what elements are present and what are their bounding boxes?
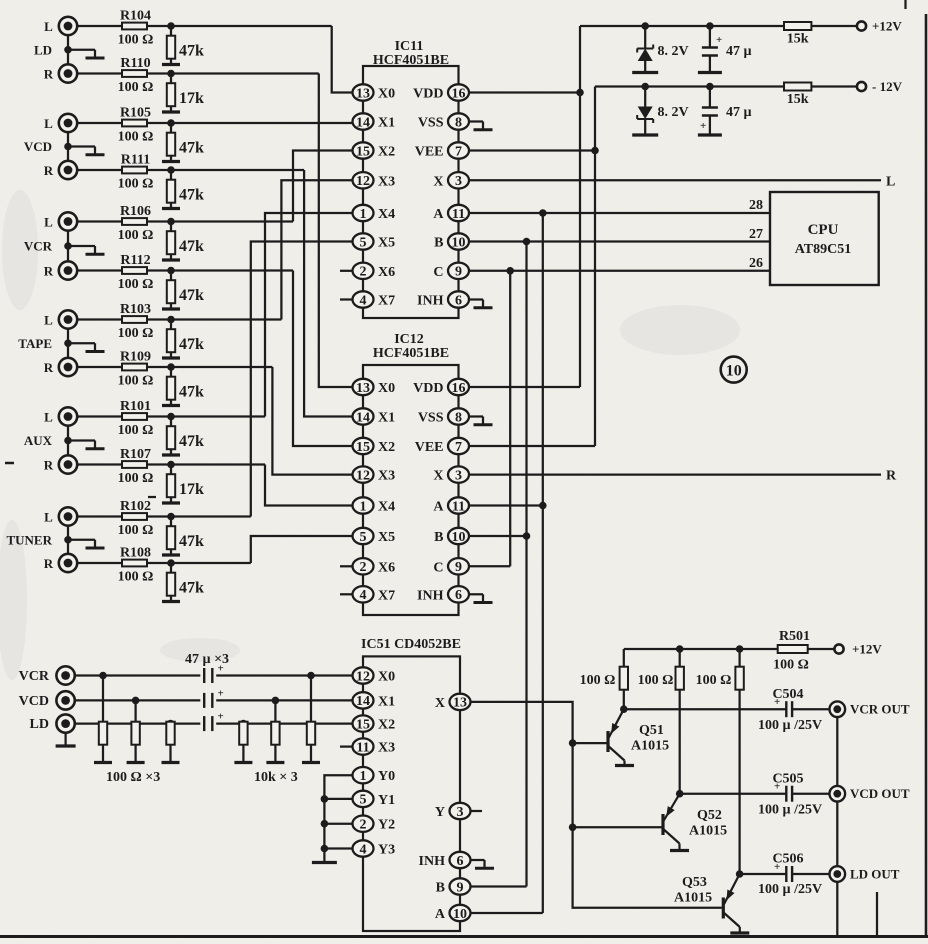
svg-text:8. 2V: 8. 2V — [658, 44, 689, 59]
resistor R103 — [118, 302, 154, 341]
input jack R — [44, 261, 77, 279]
svg-text:L: L — [44, 510, 53, 525]
input jack L — [44, 212, 77, 230]
svg-text:X1: X1 — [378, 411, 395, 426]
resistor 47k shunt — [167, 417, 175, 454]
svg-text:10: 10 — [453, 907, 467, 922]
pin IC12 10 B — [434, 528, 469, 545]
svg-text:1: 1 — [360, 769, 367, 784]
svg-text:100 Ω: 100 Ω — [118, 277, 154, 292]
wire jack to R103 — [77, 318, 281, 320]
label 47k — [179, 287, 204, 304]
wire TUNER L to IC11 X5 — [251, 242, 353, 517]
pin IC51 9 B — [436, 878, 471, 895]
svg-text:17k: 17k — [179, 90, 204, 107]
node VCD r — [132, 697, 140, 705]
node VCR k — [307, 672, 315, 680]
svg-text:15k: 15k — [787, 32, 809, 47]
svg-text:+: + — [218, 711, 224, 723]
resistor R101 — [118, 399, 154, 438]
svg-text:L: L — [44, 410, 53, 425]
capacitor 47u VCR — [204, 663, 224, 684]
pin IC51 13 X — [435, 694, 471, 711]
svg-text:7: 7 — [455, 144, 462, 159]
svg-text:10k × 3: 10k × 3 — [254, 770, 298, 785]
label 100ohm col 679.7 — [638, 673, 674, 688]
ground LD — [68, 50, 105, 58]
wire jack to R107 — [77, 463, 265, 465]
pin IC12 5 X5 — [353, 528, 396, 545]
ground — [162, 110, 180, 113]
resistor 10k VCR — [307, 676, 315, 762]
wire C column — [509, 271, 511, 567]
wire B col to IC51 pin9 — [471, 885, 527, 887]
resistor 10k VCD — [271, 700, 279, 761]
pin IC11 12 X3 — [353, 172, 396, 189]
label TAPE — [18, 336, 52, 351]
pin IC51 12 X0 — [353, 667, 396, 684]
wire IC11 A to CPU — [469, 212, 770, 214]
resistor 17k shunt — [167, 465, 175, 502]
svg-text:3: 3 — [457, 805, 464, 820]
pin IC12 3 X — [433, 466, 469, 483]
resistor 15k top — [784, 22, 811, 47]
svg-text:CPU: CPU — [808, 222, 839, 238]
resistor 47k shunt — [167, 222, 175, 259]
resistor R111 — [118, 153, 154, 192]
label 47u top — [726, 44, 752, 59]
capacitor 47u top — [702, 26, 722, 71]
svg-text:100 Ω: 100 Ω — [118, 326, 154, 341]
svg-text:2: 2 — [360, 265, 367, 280]
input jack VCD — [19, 691, 75, 709]
svg-text:X2: X2 — [378, 718, 395, 733]
border tick top — [904, 0, 906, 9]
wire IC11 X6 stub — [340, 270, 353, 272]
pin IC51 11 X3 — [353, 738, 396, 755]
svg-text:47 µ ×3: 47 µ ×3 — [185, 652, 229, 667]
svg-text:47 µ: 47 µ — [726, 105, 752, 120]
node zener2 tap — [641, 83, 649, 91]
node junction R101 — [167, 413, 175, 421]
node e1 — [620, 705, 628, 713]
ground cap1 — [698, 71, 722, 74]
resistor 100ohm col 739.6 — [735, 649, 743, 874]
resistor 100ohm VCR — [99, 676, 107, 762]
node cap1 tap — [706, 22, 714, 30]
wire +12V out rail — [624, 648, 778, 650]
wire VCD R to IC12 X1 — [304, 170, 352, 417]
svg-text:4: 4 — [360, 842, 367, 857]
svg-text:1: 1 — [360, 499, 367, 514]
label 17k — [179, 90, 204, 107]
svg-text:14: 14 — [356, 694, 370, 709]
ground — [162, 356, 180, 359]
label 47k — [179, 533, 204, 550]
pin IC12 2 X6 — [353, 558, 396, 575]
svg-text:R107: R107 — [120, 447, 151, 462]
svg-text:A: A — [433, 500, 444, 515]
wire IC12 X7 stub — [340, 593, 353, 595]
svg-text:13: 13 — [356, 381, 370, 396]
op-amp IC51 box — [363, 656, 460, 931]
label 10k x3 — [254, 770, 298, 785]
wire jack to R106 — [77, 220, 293, 222]
node VCD k — [272, 697, 280, 705]
svg-text:A: A — [435, 907, 446, 922]
svg-text:TUNER: TUNER — [6, 532, 52, 547]
svg-text:R103: R103 — [120, 302, 151, 317]
pin IC51 14 X1 — [353, 692, 396, 709]
svg-text:HCF4051BE: HCF4051BE — [373, 53, 449, 68]
node B2 — [523, 532, 531, 540]
svg-text:6: 6 — [457, 854, 464, 869]
svg-text:100 µ /25V: 100 µ /25V — [758, 882, 822, 897]
svg-text:Y: Y — [435, 805, 445, 820]
svg-text:R112: R112 — [120, 253, 150, 268]
input jack R — [44, 554, 77, 572]
node TUNER mid — [64, 536, 72, 544]
resistor 47k shunt — [167, 517, 175, 554]
output jack VCR OUT — [830, 701, 910, 717]
label IC12 — [373, 332, 449, 361]
svg-text:X1: X1 — [378, 116, 395, 131]
pin IC11 15 X2 — [353, 142, 396, 159]
svg-text:100 Ω: 100 Ω — [118, 80, 154, 95]
svg-text:15k: 15k — [787, 92, 809, 107]
svg-text:+: + — [774, 861, 780, 873]
pin IC12 7 VEE — [415, 438, 469, 455]
svg-text:VCD: VCD — [24, 139, 52, 154]
svg-text:+: + — [774, 696, 780, 708]
svg-text:3: 3 — [455, 174, 462, 189]
label 47k — [179, 238, 204, 255]
node junction R104 — [167, 22, 175, 30]
input jack VCR — [19, 666, 75, 684]
wire IC11 C to CPU — [469, 270, 770, 272]
pin IC11 4 X7 — [353, 291, 396, 308]
svg-text:14: 14 — [356, 115, 370, 130]
wire IC12 B stub — [469, 535, 527, 537]
node VCD mid — [64, 143, 72, 151]
wire 15k to +12V term — [812, 25, 858, 27]
label 47k — [179, 187, 204, 204]
label VCD — [24, 139, 52, 154]
svg-text:47k: 47k — [179, 533, 204, 550]
input jack R — [44, 64, 77, 82]
capacitor 47u LD — [204, 711, 224, 732]
svg-text:X: X — [433, 469, 443, 484]
wire out jack bus — [836, 709, 838, 936]
svg-text:VSS: VSS — [418, 411, 444, 426]
pin IC51 5 Y1 — [353, 791, 396, 808]
wire Q52 base — [573, 826, 662, 828]
resistor 17k shunt — [167, 74, 175, 111]
svg-text:100 Ω ×3: 100 Ω ×3 — [106, 770, 160, 785]
svg-text:100 Ω: 100 Ω — [118, 523, 154, 538]
ground 10k LD — [234, 761, 252, 764]
ground 100ohm VCD — [127, 761, 145, 764]
pin IC11 5 X5 — [353, 233, 396, 250]
node Q52 base — [569, 824, 577, 832]
svg-text:100 Ω: 100 Ω — [118, 228, 154, 243]
label VCR — [24, 239, 53, 254]
label R out — [886, 469, 897, 484]
svg-text:28: 28 — [749, 198, 763, 213]
label figure 10 — [721, 357, 747, 383]
label pin 27 — [749, 227, 763, 242]
svg-text:R101: R101 — [120, 399, 151, 414]
resistor R106 — [118, 204, 154, 243]
pin IC51 3 Y — [435, 803, 471, 820]
zener diode 8.2V bottom — [637, 87, 653, 134]
resistor 47k shunt — [167, 367, 175, 404]
node A2 — [539, 502, 547, 510]
ground LD jack — [56, 733, 76, 746]
pin IC11 8 VSS — [418, 113, 469, 130]
svg-text:9: 9 — [457, 880, 464, 895]
op-amp IC11 box — [363, 66, 459, 318]
resistor 15k bottom — [784, 83, 811, 108]
svg-text:IC51 CD4052BE: IC51 CD4052BE — [361, 637, 461, 652]
label TUNER — [6, 532, 52, 547]
svg-text:3: 3 — [455, 468, 462, 483]
pin IC12 12 X3 — [353, 466, 396, 483]
wire jack to R110 — [77, 72, 319, 74]
svg-text:R102: R102 — [120, 499, 151, 514]
resistor 100ohm col 623.8 — [620, 649, 628, 709]
svg-text:AUX: AUX — [24, 433, 53, 448]
svg-text:IC12: IC12 — [394, 332, 424, 347]
svg-text:47 µ: 47 µ — [726, 44, 752, 59]
svg-text:Y2: Y2 — [378, 818, 395, 833]
resistor R102 — [118, 499, 154, 538]
svg-text:8: 8 — [455, 115, 462, 130]
pin IC12 15 X2 — [353, 438, 396, 455]
pin IC11 7 VEE — [415, 142, 469, 159]
svg-text:47k: 47k — [179, 140, 204, 157]
svg-text:13: 13 — [453, 696, 467, 711]
node Q51 base — [569, 739, 577, 747]
resistor 100ohm VCD — [131, 700, 139, 761]
wire -12V rail — [595, 87, 784, 447]
svg-text:L: L — [44, 313, 53, 328]
label 47k — [179, 433, 204, 450]
label 47k — [179, 384, 204, 401]
svg-text:R110: R110 — [120, 56, 150, 71]
svg-text:X2: X2 — [378, 145, 395, 160]
resistor R104 — [118, 9, 154, 48]
svg-text:5: 5 — [360, 530, 367, 545]
wire jack to R104 — [77, 25, 332, 27]
terminal -12V — [857, 79, 903, 94]
transistor Q51 — [608, 709, 669, 765]
svg-text:X0: X0 — [378, 381, 395, 396]
ground TAPE — [68, 343, 105, 351]
svg-text:100 Ω: 100 Ω — [638, 673, 674, 688]
ground 10k VCR — [302, 761, 320, 764]
resistor 100ohm col 679.7 — [676, 649, 684, 794]
svg-text:R111: R111 — [121, 153, 151, 168]
svg-text:6: 6 — [455, 293, 462, 308]
wire IC12 X6 stub — [340, 565, 353, 567]
pin IC12 9 C — [433, 558, 469, 575]
pin IC51 10 A — [435, 905, 471, 922]
wire jack pair VCR — [67, 231, 69, 262]
wire jack to R102 — [77, 515, 251, 517]
svg-text:R: R — [44, 264, 54, 279]
ground IC11 INH — [469, 300, 493, 308]
pin IC12 11 A — [433, 497, 469, 514]
capacitor C506 — [758, 852, 822, 898]
ground IC51 INH — [471, 860, 495, 868]
resistor R112 — [118, 253, 154, 292]
node junction R110 — [167, 70, 175, 78]
label pin 26 — [749, 256, 763, 271]
node junction R105 — [167, 119, 175, 127]
svg-text:47k: 47k — [179, 43, 204, 60]
svg-text:R501: R501 — [779, 629, 810, 644]
svg-text:R108: R108 — [120, 546, 151, 561]
pin IC11 6 INH — [417, 291, 469, 308]
svg-text:Q52: Q52 — [697, 808, 722, 823]
node VEE11 — [591, 147, 599, 155]
wire VCR OUT line — [624, 708, 830, 710]
wire LD OUT line — [740, 873, 830, 875]
svg-text:IC11: IC11 — [395, 39, 424, 54]
svg-text:A1015: A1015 — [674, 891, 712, 906]
svg-text:X4: X4 — [378, 207, 395, 222]
wire IC51 Y stub — [471, 810, 483, 812]
transistor Q52 — [663, 794, 727, 851]
svg-text:X4: X4 — [378, 500, 395, 515]
svg-text:VCD OUT: VCD OUT — [850, 786, 910, 801]
svg-text:LD OUT: LD OUT — [850, 867, 900, 882]
resistor R107 — [118, 447, 154, 486]
svg-text:Y1: Y1 — [378, 793, 395, 808]
svg-text:Y0: Y0 — [378, 769, 395, 784]
ground — [162, 160, 180, 163]
wire IC11 VEE to -12V col — [469, 149, 595, 151]
wire Y tie — [324, 775, 352, 861]
capacitor 47u VCD — [204, 687, 224, 708]
svg-text:100 Ω: 100 Ω — [696, 673, 732, 688]
svg-text:R: R — [44, 163, 54, 178]
node VCR r — [99, 672, 107, 680]
label 8.2V bottom — [658, 105, 689, 120]
svg-text:X0: X0 — [378, 87, 395, 102]
wire +12V rail — [580, 26, 784, 387]
svg-text:8. 2V: 8. 2V — [658, 105, 689, 120]
svg-text:VCD: VCD — [19, 694, 49, 709]
resistor 47k shunt — [167, 123, 175, 160]
svg-text:LD: LD — [30, 717, 49, 732]
resistor 47k shunt — [167, 271, 175, 308]
node Y2 — [321, 820, 329, 828]
svg-text:TAPE: TAPE — [18, 336, 52, 351]
wire AUX R to IC12 X4 — [265, 465, 353, 506]
output jack VCD OUT — [830, 786, 910, 802]
ground 10k VCD — [266, 761, 284, 764]
label IC11 — [373, 39, 449, 68]
label 100ohm col 739.6 — [696, 673, 732, 688]
pin IC12 4 X7 — [353, 586, 396, 603]
svg-text:X: X — [433, 174, 443, 189]
svg-text:R: R — [886, 469, 897, 484]
node junction R112 — [167, 267, 175, 275]
wire 15k to -12V term — [812, 85, 858, 87]
svg-text:HCF4051BE: HCF4051BE — [373, 346, 449, 361]
pin IC12 1 X4 — [353, 497, 396, 514]
wire LD row — [75, 722, 353, 724]
svg-text:100 Ω: 100 Ω — [773, 658, 809, 673]
wire B column — [525, 242, 527, 887]
node B — [523, 238, 531, 246]
pin IC11 1 X4 — [353, 205, 396, 222]
wire jack to R111 — [77, 169, 304, 171]
svg-text:16: 16 — [452, 86, 466, 101]
svg-text:VSS: VSS — [418, 116, 444, 131]
input jack LD — [30, 714, 75, 732]
svg-text:X: X — [435, 696, 445, 711]
svg-text:11: 11 — [356, 740, 369, 755]
ground — [162, 307, 180, 310]
wire VCR row — [75, 674, 353, 676]
ground — [162, 553, 180, 556]
svg-text:L: L — [886, 174, 895, 189]
label 100ohm col 623.8 — [580, 673, 616, 688]
ground IC12 VSS — [469, 417, 493, 425]
pin IC11 11 A — [433, 205, 469, 222]
wire IC11 X out L line — [469, 179, 881, 181]
wire jack pair LD — [67, 35, 69, 64]
svg-text:100 µ /25V: 100 µ /25V — [758, 803, 822, 818]
svg-text:VCR OUT: VCR OUT — [850, 702, 910, 717]
label 100ohm x3 — [106, 770, 160, 785]
border right — [925, 14, 928, 937]
svg-text:7: 7 — [455, 440, 462, 455]
pin IC11 3 X — [433, 172, 469, 189]
svg-text:INH: INH — [417, 588, 444, 603]
ground 100ohm LD — [162, 761, 180, 764]
svg-text:47k: 47k — [179, 336, 204, 353]
svg-text:47k: 47k — [179, 187, 204, 204]
wire IC51 X3 stub — [340, 745, 353, 747]
wire IC12 VDD corner — [469, 386, 580, 388]
svg-text:A1015: A1015 — [689, 824, 727, 839]
wire VCR R to IC12 X2 — [293, 271, 353, 447]
svg-text:+: + — [716, 34, 722, 46]
ground IC11 VSS — [469, 122, 493, 130]
node cap2 tap — [706, 83, 714, 91]
input jack L — [44, 310, 77, 328]
svg-text:9: 9 — [455, 560, 462, 575]
svg-text:VDD: VDD — [413, 381, 443, 396]
svg-text:5: 5 — [360, 793, 367, 808]
svg-text:47k: 47k — [179, 580, 204, 597]
output jack LD OUT — [830, 866, 900, 882]
pin IC11 14 X1 — [353, 113, 396, 130]
node junction R111 — [167, 166, 175, 174]
pin IC12 6 INH — [417, 586, 469, 603]
svg-text:X6: X6 — [378, 265, 395, 280]
svg-text:X3: X3 — [378, 469, 395, 484]
svg-text:6: 6 — [455, 588, 462, 603]
wire IC12 C stub — [469, 565, 510, 567]
wire jack to R112 — [77, 269, 293, 271]
node VDD11 — [576, 89, 584, 97]
wire jack to R101 — [77, 415, 265, 417]
